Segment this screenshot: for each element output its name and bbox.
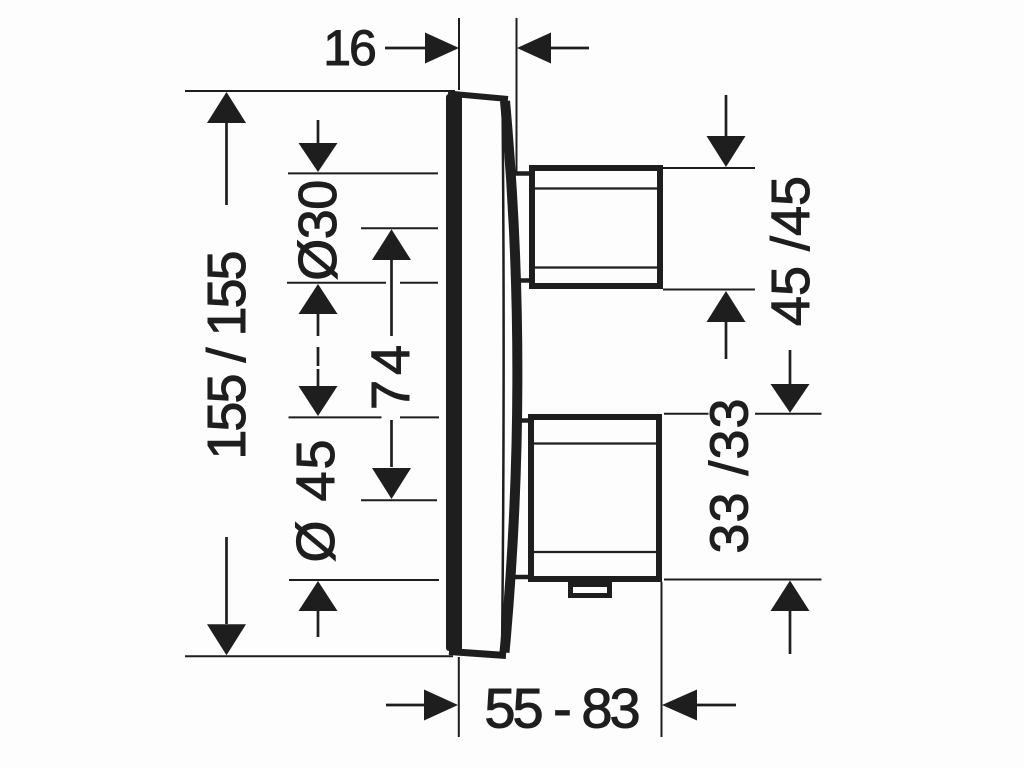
dim 45/45 arrow up bbox=[707, 291, 746, 322]
upper handle inner line bottom bbox=[535, 266, 657, 268]
dim 16 right arrow bbox=[517, 33, 551, 64]
escutcheon plate inner right edge bbox=[502, 99, 504, 654]
dim 55-83 right arrow bbox=[662, 690, 697, 721]
dim D45 arrow up bbox=[299, 581, 338, 611]
svg-text:16: 16 bbox=[323, 20, 375, 76]
dim 155 stem bottom bbox=[225, 537, 228, 624]
lower valve flange bbox=[514, 421, 532, 578]
escutcheon plate outer right edge bbox=[505, 101, 518, 653]
escutcheon plate bottom edge bbox=[449, 652, 506, 656]
dim 33/33 arrow up bbox=[771, 581, 810, 612]
dim 155 arrow up bbox=[207, 92, 246, 123]
lower handle inner line top bbox=[534, 442, 656, 444]
svg-text:74: 74 bbox=[361, 340, 421, 410]
dim D30 arrow up bbox=[299, 284, 338, 314]
escutcheon plate left bar bbox=[446, 94, 462, 651]
svg-text:33 /33: 33 /33 bbox=[700, 397, 760, 553]
dim 33/33 bottom line bbox=[664, 579, 822, 581]
upper handle inner line top bbox=[535, 187, 657, 189]
dim 55-83 right extension line bbox=[661, 582, 663, 737]
escutcheon plate top edge bbox=[448, 94, 508, 100]
dim 155 stem top bbox=[225, 123, 228, 205]
dim D45 top line bbox=[289, 416, 440, 418]
lower handle body bbox=[531, 417, 659, 579]
dim D45 arrow down bbox=[317, 369, 320, 386]
svg-text:Ø30: Ø30 bbox=[288, 180, 348, 281]
dim 16 left extension line bbox=[458, 18, 460, 90]
dim 55-83 left extension line bbox=[458, 657, 460, 737]
dim 45/45 bottom line bbox=[663, 289, 755, 291]
dim 16 left arrow bbox=[385, 47, 425, 50]
upper valve flange bbox=[514, 174, 532, 281]
dim D30 top line bbox=[288, 172, 438, 174]
svg-text:45 /45: 45 /45 bbox=[761, 176, 821, 326]
dim 155 arrow down bbox=[207, 624, 246, 655]
dim 16 right extension line bbox=[516, 18, 518, 173]
dim 55-83 left arrow bbox=[386, 704, 424, 707]
dim D30 arrow down bbox=[317, 120, 320, 143]
lower handle bottom tab bbox=[571, 585, 610, 596]
upper handle body bbox=[532, 168, 660, 286]
svg-text:155 / 155: 155 / 155 bbox=[197, 252, 257, 459]
dim 155 bottom extension line bbox=[185, 655, 453, 657]
svg-text:Ø 45: Ø 45 bbox=[286, 437, 346, 562]
dim 74 arrow up bbox=[372, 229, 411, 260]
dim 33/33 top line bbox=[664, 413, 822, 415]
dim 74 top line bbox=[361, 227, 438, 229]
dim D30 bottom line bbox=[287, 282, 438, 284]
dim D45 bottom line bbox=[289, 579, 439, 581]
dim 74 bottom line bbox=[361, 499, 437, 501]
dim 74 arrow down bbox=[390, 420, 393, 467]
dim 155 top extension line bbox=[185, 90, 455, 92]
lower handle inner line bottom bbox=[534, 551, 656, 553]
svg-text:55 - 83: 55 - 83 bbox=[484, 677, 638, 740]
dim 45/45 arrow down bbox=[725, 95, 728, 136]
dim 45/45 top line bbox=[663, 167, 755, 169]
dim 33/33 arrow down bbox=[789, 350, 792, 384]
